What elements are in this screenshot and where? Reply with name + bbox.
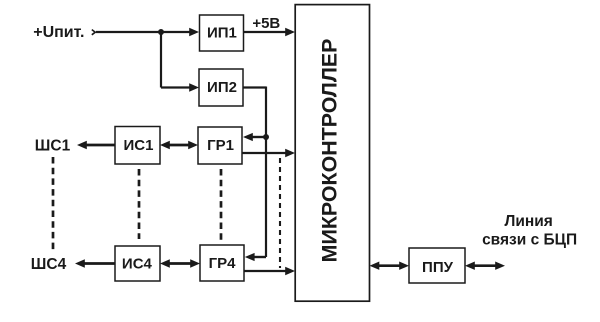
svg-text:ГР1: ГР1 bbox=[207, 137, 234, 154]
svg-text:ГР4: ГР4 bbox=[209, 255, 237, 272]
svg-text:связи с БЦП: связи с БЦП bbox=[482, 231, 577, 248]
svg-text:Линия: Линия bbox=[505, 213, 553, 230]
svg-text:ШС1: ШС1 bbox=[35, 138, 71, 155]
svg-text:МИКРОКОНТРОЛЛЕР: МИКРОКОНТРОЛЛЕР bbox=[318, 39, 342, 263]
svg-text:ИС1: ИС1 bbox=[124, 137, 154, 154]
svg-text:+Uпит.: +Uпит. bbox=[33, 24, 84, 41]
svg-text:ШС4: ШС4 bbox=[31, 256, 67, 273]
svg-text:+5В: +5В bbox=[252, 15, 280, 32]
svg-text:ИС4: ИС4 bbox=[122, 255, 153, 272]
svg-text:ППУ: ППУ bbox=[422, 259, 454, 276]
svg-text:ИП2: ИП2 bbox=[207, 79, 237, 96]
svg-text:ИП1: ИП1 bbox=[207, 24, 237, 41]
